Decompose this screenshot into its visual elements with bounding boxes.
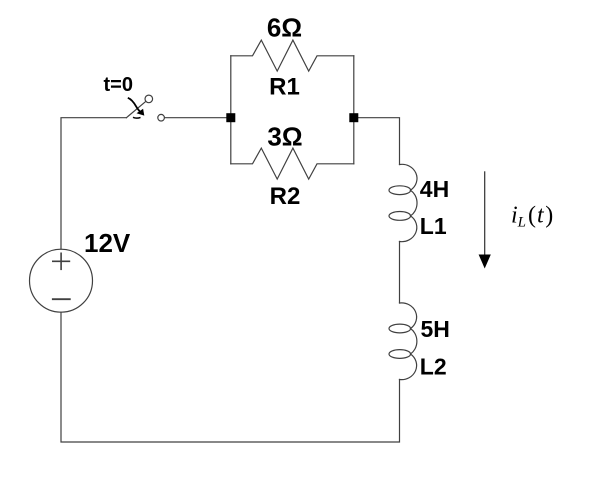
- svg-text:R1: R1: [269, 73, 300, 100]
- svg-text:12V: 12V: [84, 228, 131, 258]
- svg-text:iL(t): iL(t): [511, 203, 553, 231]
- svg-text:3Ω: 3Ω: [267, 122, 302, 152]
- svg-text:5H: 5H: [421, 316, 450, 342]
- svg-text:6Ω: 6Ω: [267, 13, 302, 43]
- svg-text:t=0: t=0: [104, 74, 133, 96]
- svg-text:L2: L2: [420, 354, 447, 380]
- svg-text:R2: R2: [270, 183, 301, 210]
- svg-text:4H: 4H: [420, 176, 449, 202]
- svg-text:L1: L1: [420, 213, 447, 239]
